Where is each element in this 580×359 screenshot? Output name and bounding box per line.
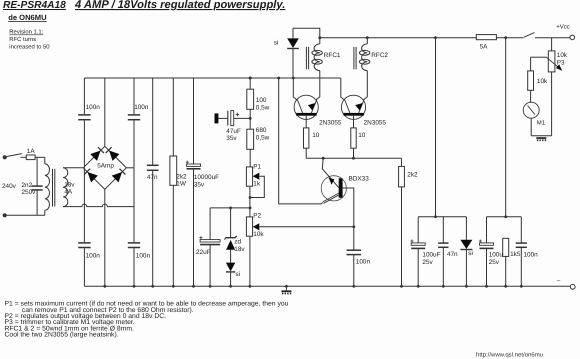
wire AC1 to lower snubber bbox=[83, 168, 85, 243]
junction ground rail P2 bbox=[249, 285, 252, 288]
junction BDX33 emitter rail bbox=[277, 77, 280, 80]
bridge diode D3 (- to AC left) bbox=[84, 168, 98, 182]
junction Q1 collector / si cathode bbox=[292, 77, 295, 80]
svg-text:http://www.qsl.net/on6mu: http://www.qsl.net/on6mu bbox=[476, 352, 543, 359]
wire P1 wiper loop bbox=[250, 176, 264, 197]
svg-text:1k5: 1k5 bbox=[510, 251, 521, 258]
wire switch to fuse F1 bbox=[21, 156, 27, 158]
wire reference chain top lead bbox=[249, 78, 251, 89]
svg-text:RFC turns: RFC turns bbox=[9, 36, 36, 43]
junction ground rail AC2 snubber bbox=[133, 285, 136, 288]
svg-text:47n: 47n bbox=[147, 174, 158, 181]
svg-text:100n: 100n bbox=[136, 252, 151, 259]
svg-text:Revision 1.1:: Revision 1.1: bbox=[9, 29, 43, 36]
wire 10k to M1 bbox=[530, 90, 532, 102]
zener diode zd 18v bbox=[225, 236, 237, 250]
svg-text:680: 680 bbox=[256, 127, 267, 134]
wire 47n out bottom lead bbox=[442, 248, 444, 286]
trimmer P3 wiper arrow bbox=[546, 57, 560, 69]
wire group2 drop bbox=[505, 38, 507, 217]
svg-text:10k: 10k bbox=[557, 52, 568, 59]
capacitor 100n (lower left snubber) bbox=[78, 243, 90, 248]
wire 680 to P1 bbox=[249, 149, 251, 167]
svg-text:4 AMP / 18Volts regulated powe: 4 AMP / 18Volts regulated powersupply. bbox=[74, 0, 285, 11]
junction 47uF tap bbox=[249, 117, 252, 120]
wire primary top stub bbox=[44, 157, 46, 164]
wire Q2 collector bbox=[341, 78, 345, 100]
junction ground rail 47n out bbox=[442, 285, 445, 288]
output terminal - bbox=[570, 284, 575, 289]
wire 47n top lead bbox=[152, 78, 154, 165]
junction RFC2 top bbox=[366, 36, 369, 39]
svg-text:25v: 25v bbox=[489, 259, 500, 266]
bridge rectifier outline bbox=[83, 146, 126, 189]
wire 47uF to chain junction bbox=[234, 117, 251, 119]
svg-text:si: si bbox=[274, 40, 279, 47]
svg-text:0,5w: 0,5w bbox=[256, 105, 270, 112]
wire output top rail bbox=[320, 37, 477, 39]
junction + rail BDX33 emitter bbox=[278, 77, 280, 79]
wire bridge + output to rail bbox=[104, 78, 106, 146]
wire secondary top to bridge AC left bbox=[63, 167, 83, 169]
junction ground rail 100n out bbox=[520, 285, 523, 288]
junction ground rail 100u bbox=[485, 285, 488, 288]
svg-text:18v: 18v bbox=[234, 246, 245, 253]
inductor RFC2 core bbox=[354, 47, 356, 69]
wire AC bottom to primary bbox=[5, 214, 45, 216]
junction BDX33 collector bbox=[322, 157, 325, 160]
wire zener top lead bbox=[230, 208, 232, 237]
wire 2k2 feedback top lead bbox=[401, 158, 403, 166]
wire output sense drop bbox=[435, 38, 437, 217]
svg-text:si: si bbox=[236, 271, 241, 278]
AC input terminal bottom bbox=[3, 213, 7, 217]
resistor 1k5 bleeder bbox=[503, 238, 509, 256]
switch S2 blade bbox=[524, 33, 535, 38]
svg-text:10: 10 bbox=[312, 132, 320, 139]
junction after fuse bbox=[504, 36, 507, 39]
svg-text:P2: P2 bbox=[253, 213, 261, 220]
wire bridge AC right bbox=[126, 167, 134, 169]
wire Q1 emitter to RFC1 bbox=[316, 71, 320, 101]
bridge diode D2 (AC right to +) bbox=[105, 147, 119, 161]
svg-text:240v: 240v bbox=[2, 183, 17, 190]
wire 100 to 680 bbox=[249, 109, 251, 129]
wire P2 bottom to ground rail bbox=[249, 236, 251, 286]
potentiometer P1 wiper arrow bbox=[253, 173, 260, 180]
wire si out top lead bbox=[465, 217, 467, 240]
wire si cathode down bbox=[292, 49, 294, 78]
svg-text:100n: 100n bbox=[356, 259, 371, 266]
fuse F1 1A bbox=[26, 155, 35, 160]
wire base filter 100n top lead bbox=[353, 227, 355, 250]
capacitor 100u 25v bbox=[479, 240, 494, 249]
AC input terminal top bbox=[3, 155, 7, 159]
junction output sense tap bbox=[434, 36, 437, 39]
wire fuse to transformer primary bbox=[35, 156, 45, 158]
junction ground rail zener bbox=[229, 285, 232, 288]
wire P3 wiper to 10k bbox=[531, 56, 547, 58]
svg-text:250v: 250v bbox=[22, 189, 37, 196]
svg-text:100: 100 bbox=[256, 97, 267, 104]
junction ground rail 10000uF bbox=[192, 285, 195, 288]
svg-text:1A: 1A bbox=[27, 148, 36, 155]
bridge diode D1 (AC left to +) bbox=[90, 147, 104, 161]
wire AC2 vertical upper bbox=[133, 78, 135, 115]
wire 2k2 bleeder top lead bbox=[172, 78, 174, 156]
capacitor 100n (upper left snubber) bbox=[78, 115, 90, 120]
capacitor C1 2n2 bbox=[32, 186, 43, 190]
junction ground rail 47n bbox=[151, 285, 154, 288]
svg-text:100n: 100n bbox=[86, 252, 101, 259]
wire lower right snubber to ground rail bbox=[133, 248, 135, 286]
svg-text:18v: 18v bbox=[64, 182, 75, 189]
svg-text:35v: 35v bbox=[194, 181, 205, 188]
wire 47n out top lead bbox=[442, 217, 444, 243]
wire primary bottom stub bbox=[44, 210, 46, 215]
wire si anode up bbox=[292, 28, 294, 38]
wire 2k2 bleeder bottom lead bbox=[172, 185, 174, 286]
junction ground rail 1k5 bbox=[504, 285, 507, 288]
wire AC2 vertical lower bbox=[133, 168, 135, 243]
junction Q2 base resistor bbox=[352, 157, 355, 160]
junction ground rail 2k2 driver bbox=[400, 285, 403, 288]
diode si (output reverse protection) bbox=[460, 240, 472, 250]
output terminal +Vcc bbox=[570, 35, 575, 40]
wire si out bottom lead bbox=[465, 250, 467, 286]
capacitor 47n (input filter) bbox=[147, 165, 159, 170]
wire 10000uF bottom lead bbox=[193, 170, 195, 287]
meter M1 bbox=[523, 102, 539, 118]
svg-text:de ON6MU: de ON6MU bbox=[8, 13, 47, 22]
svg-text:47n: 47n bbox=[447, 251, 458, 258]
wire capacitor C1 top lead bbox=[36, 157, 38, 185]
svg-text:2n2: 2n2 bbox=[22, 182, 33, 189]
wire 2k2 driver bottom lead bbox=[401, 187, 403, 286]
wire Q1 collector bbox=[293, 78, 297, 100]
svg-text:zd: zd bbox=[234, 238, 241, 245]
svg-text:si: si bbox=[468, 250, 473, 257]
resistor 10 (Q1 base) bbox=[304, 128, 309, 148]
wire AC2 vertical mid bbox=[133, 120, 135, 168]
inductor RFC2 winding bbox=[359, 44, 369, 71]
wire RFC2 top lead bbox=[366, 38, 368, 44]
capacitor 100uF 25v bbox=[411, 240, 426, 249]
wire base filter 100n bottom lead bbox=[353, 255, 355, 286]
svg-text:10: 10 bbox=[358, 132, 366, 139]
junction + rail ref chain bbox=[249, 77, 252, 80]
svg-text:1k: 1k bbox=[253, 180, 261, 187]
svg-text:Cool the two 2N3055 (large hea: Cool the two 2N3055 (large heatsink). bbox=[5, 332, 119, 339]
junction group1 feed bbox=[434, 215, 437, 218]
wire si to ground rail bbox=[230, 272, 232, 286]
wire Q1 base lead bbox=[305, 116, 307, 128]
svg-text:22uF: 22uF bbox=[196, 249, 211, 256]
wire secondary bottom to AC2 with hops bbox=[63, 204, 134, 206]
wire Q1 10ohm to drive rail bbox=[305, 148, 307, 158]
capacitor 47uF 35v (horizontal electrolytic) bbox=[215, 111, 240, 126]
wire base drive rail bbox=[306, 157, 401, 159]
svg-text:25v: 25v bbox=[422, 259, 433, 266]
junction group2 feed bbox=[504, 215, 507, 218]
wire RFC1 top lead bbox=[319, 38, 321, 44]
wire P3 top lead bbox=[551, 38, 553, 51]
junction zener tap bbox=[229, 207, 232, 210]
junction ground rail 22uF bbox=[209, 285, 212, 288]
wire 100uF bottom lead bbox=[417, 249, 419, 286]
svg-text:increased to 50: increased to 50 bbox=[9, 43, 50, 50]
wire lower left snubber to ground rail bbox=[83, 248, 85, 286]
svg-text:0,5w: 0,5w bbox=[256, 134, 270, 141]
wire group1 top bbox=[418, 216, 466, 218]
bridge diode D4 (- to AC right) bbox=[112, 168, 126, 182]
wire 100u bottom lead bbox=[486, 249, 488, 286]
svg-text:RFC1: RFC1 bbox=[324, 52, 341, 59]
wire 22uF bottom lead bbox=[209, 245, 211, 286]
resistor 10k (meter series) bbox=[528, 71, 534, 90]
svg-text:1W: 1W bbox=[176, 181, 187, 188]
svg-text:RE-PSR4A18: RE-PSR4A18 bbox=[3, 0, 66, 11]
resistor 100 0,5w bbox=[247, 89, 254, 109]
wire ground rail bbox=[84, 285, 570, 287]
capacitor 100n (output) bbox=[516, 243, 527, 247]
potentiometer P2 10k body bbox=[246, 217, 252, 236]
transformer T1 primary winding bbox=[45, 164, 50, 210]
svg-text:10k: 10k bbox=[253, 231, 264, 238]
wire P3 bottom lead bbox=[551, 72, 553, 136]
svg-text:100n: 100n bbox=[134, 104, 149, 111]
junction BDX33 base / P2 wiper bbox=[352, 225, 355, 228]
svg-text:35v: 35v bbox=[226, 135, 237, 142]
wire reference node left bbox=[210, 207, 250, 209]
wire unregulated + rail bbox=[84, 77, 340, 79]
wire zener to si diode bbox=[230, 250, 232, 263]
wire Q2 10ohm to drive rail bbox=[353, 148, 355, 158]
wire AC1 vertical upper bbox=[83, 78, 85, 115]
ground symbol (main) bbox=[281, 290, 291, 294]
transformer T1 core bbox=[53, 169, 55, 207]
capacitor 47n (output) bbox=[438, 243, 448, 247]
wire AC1 vertical lower bbox=[83, 120, 85, 168]
wire 1k5 bottom lead bbox=[505, 256, 507, 286]
wire M1/P3 to meter ground bbox=[531, 135, 551, 137]
wire capacitor C1 bottom lead bbox=[36, 191, 38, 216]
wire 10000uF top lead bbox=[193, 78, 195, 164]
junction ground rail 100n base bbox=[352, 285, 355, 288]
wire 100uF top lead bbox=[417, 217, 419, 243]
wire 100u top lead bbox=[486, 217, 488, 243]
junction reference node bbox=[249, 207, 252, 210]
resistor 10 (Q2) bbox=[351, 128, 356, 148]
transistor Q1 2N3055 bbox=[294, 95, 318, 119]
junction RFC1 top bbox=[318, 36, 321, 39]
inductor RFC1 winding bbox=[312, 44, 322, 71]
wire 22uF top lead bbox=[209, 208, 211, 240]
resistor 2k2 1W bleeder bbox=[170, 156, 177, 185]
svg-text:P1: P1 bbox=[253, 163, 261, 170]
ground symbol (meter) bbox=[536, 137, 546, 141]
wire 47n bottom lead bbox=[152, 171, 154, 286]
diode si (series with zener) bbox=[226, 263, 235, 272]
wire si top loop to output rail bbox=[293, 28, 320, 38]
svg-text:2N3055: 2N3055 bbox=[364, 119, 387, 126]
transformer T1 secondary winding 18v 4A bbox=[63, 168, 68, 207]
junction ground rail bridge - bbox=[103, 285, 106, 288]
svg-text:100uF: 100uF bbox=[422, 251, 440, 258]
capacitor 22uF bbox=[199, 236, 220, 244]
transistor U1 BDX33 driver bbox=[321, 158, 346, 203]
diode si (output to collector protection) bbox=[287, 38, 299, 48]
svg-text:2k2: 2k2 bbox=[407, 172, 418, 179]
svg-text:2N3055: 2N3055 bbox=[319, 119, 342, 126]
trimmer P3 10k body bbox=[548, 51, 555, 72]
wire Q2 base lead bbox=[353, 116, 355, 128]
resistor 2k2 (driver load) bbox=[399, 166, 405, 187]
junction ground rail 100uF bbox=[417, 285, 420, 288]
svg-text:−: − bbox=[557, 278, 561, 285]
wire group2 top bbox=[487, 216, 522, 218]
capacitor 100n (lower right snubber) bbox=[128, 243, 140, 248]
svg-text:47uF: 47uF bbox=[226, 128, 241, 135]
svg-text:100n: 100n bbox=[86, 104, 101, 111]
svg-text:100n: 100n bbox=[524, 251, 539, 258]
inductor RFC1 core bbox=[306, 47, 308, 69]
svg-text:BDX33: BDX33 bbox=[349, 176, 370, 183]
wire ground stub bbox=[285, 286, 287, 290]
wire BDX33 emitter return bbox=[279, 78, 323, 204]
wire M1 bottom lead bbox=[530, 118, 532, 136]
svg-text:2k2: 2k2 bbox=[176, 173, 187, 180]
fuse F2 5A bbox=[476, 35, 496, 40]
wire switch to +Vcc terminal bbox=[535, 37, 570, 39]
wire Q2 emitter to RFC2 bbox=[363, 71, 367, 101]
capacitor 10000uF 35v main filter bbox=[186, 161, 201, 169]
potentiometer P2 wiper arrow bbox=[253, 223, 260, 230]
svg-text:10k: 10k bbox=[537, 78, 548, 85]
transistor Q2 2N3055 bbox=[341, 95, 365, 119]
svg-text:RFC2: RFC2 bbox=[371, 52, 388, 59]
wire bridge - output to ground rail bbox=[104, 189, 106, 286]
resistor 680 0,5w bbox=[247, 129, 254, 149]
svg-text:P3: P3 bbox=[557, 60, 565, 67]
svg-text:4A: 4A bbox=[64, 189, 73, 196]
junction ground rail si out bbox=[465, 285, 468, 288]
junction ground symbol bbox=[285, 285, 288, 288]
junction ground rail 2k2 bbox=[172, 285, 175, 288]
capacitor 100n (BDX33 base) bbox=[347, 250, 362, 254]
svg-text:5Amp: 5Amp bbox=[97, 163, 114, 170]
junction P1 wiper return bbox=[249, 196, 252, 199]
svg-text:5A: 5A bbox=[480, 44, 489, 51]
switch S1 blade bbox=[6, 154, 22, 157]
svg-text:100u: 100u bbox=[489, 251, 504, 258]
capacitor 100n (upper right snubber) bbox=[128, 115, 140, 120]
wire 100n out top lead bbox=[520, 217, 522, 243]
wire 10k meter top lead bbox=[530, 57, 532, 71]
svg-text:10000uF: 10000uF bbox=[194, 174, 219, 181]
wire P2 wiper to BDX33 base bbox=[259, 226, 354, 228]
wire BDX33 base lead bbox=[343, 188, 354, 227]
wire 100n out bottom lead bbox=[520, 248, 522, 286]
svg-text:+Vcc: +Vcc bbox=[556, 24, 570, 31]
wire fuse to switch bbox=[496, 37, 523, 39]
potentiometer P1 1k body bbox=[246, 167, 252, 186]
svg-text:M1: M1 bbox=[537, 120, 546, 127]
wire P1 to node bbox=[249, 186, 251, 217]
